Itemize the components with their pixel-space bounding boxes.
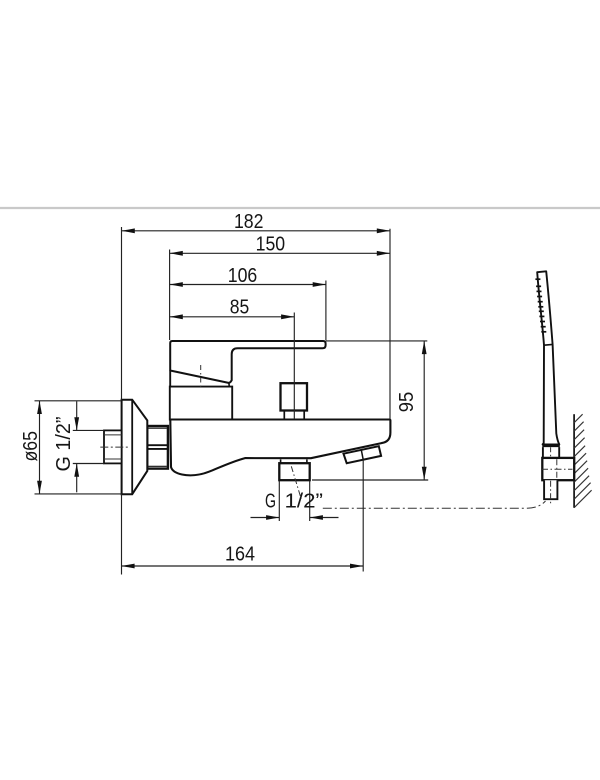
dimension 106 bbox=[170, 265, 326, 287]
dimension 95 (vertical) bbox=[396, 341, 427, 480]
cartridge collar bbox=[170, 387, 232, 420]
inlet pipe G1/2 bbox=[104, 430, 122, 463]
dimension 85 bbox=[170, 296, 295, 319]
dimension Ø65 (vertical, left) bbox=[20, 401, 42, 494]
dimension 164 bbox=[121, 544, 363, 569]
svg-text:150: 150 bbox=[256, 234, 286, 256]
svg-text:182: 182 bbox=[234, 211, 264, 233]
extension lines bbox=[35, 227, 429, 575]
bottom outlet flange bbox=[281, 459, 307, 463]
wall hatching bbox=[574, 414, 592, 508]
grey separator line bbox=[0, 207, 600, 209]
svg-text:106: 106 bbox=[228, 265, 258, 287]
top shower outlet square bbox=[281, 383, 308, 419]
shower nozzle ticks bbox=[535, 279, 546, 332]
shower hose connector bbox=[544, 480, 557, 499]
hand shower head and handle bbox=[537, 271, 559, 444]
shower holder ring bbox=[542, 446, 560, 458]
wall rosette bbox=[122, 400, 148, 495]
wall line (right) bbox=[573, 414, 575, 508]
spout aerator bbox=[344, 446, 382, 463]
svg-text:95: 95 bbox=[396, 392, 418, 413]
dimension G 1/2 (bottom) bbox=[251, 491, 339, 520]
hex wall nut bbox=[147, 426, 168, 469]
shower bracket block bbox=[542, 458, 574, 480]
svg-text:ø65: ø65 bbox=[20, 431, 42, 462]
svg-text:G: G bbox=[265, 491, 276, 513]
dimension G 1/2 (vertical, left) bbox=[53, 401, 79, 492]
faucet body bbox=[170, 420, 390, 476]
svg-text:1/2”: 1/2” bbox=[285, 491, 324, 513]
dimension 182 bbox=[122, 211, 390, 233]
svg-text:85: 85 bbox=[230, 296, 250, 318]
dash-dot centerlines bbox=[100, 365, 572, 508]
svg-text:G 1/2”: G 1/2” bbox=[53, 417, 75, 472]
dimension 150 bbox=[170, 234, 390, 256]
bottom outlet nut bbox=[279, 463, 309, 480]
lever handle bbox=[170, 341, 325, 387]
svg-text:164: 164 bbox=[225, 544, 255, 566]
